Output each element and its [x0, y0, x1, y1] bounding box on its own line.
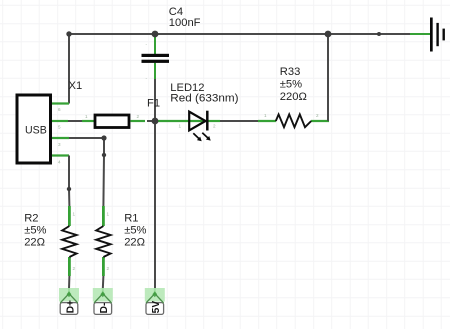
- svg-text:2: 2: [137, 114, 140, 119]
- junction node at C4/rail: [152, 31, 159, 38]
- ground symbol: [430, 18, 445, 52]
- svg-text:F1: F1: [147, 97, 160, 109]
- bendpoint pin3 drop: [102, 153, 106, 157]
- svg-text:D+: D+: [65, 300, 76, 313]
- wire LED cathode lead (green): [209, 120, 221, 122]
- wire R1 top lead (green): [102, 206, 105, 226]
- bendpoint on rail: [377, 32, 381, 36]
- svg-text:5: 5: [58, 125, 61, 130]
- terminal D- flag: [94, 291, 112, 314]
- wire LED anode lead (green): [155, 120, 206, 122]
- wire terminal D+ tip (green): [68, 288, 70, 294]
- svg-text:±5%: ±5%: [24, 225, 46, 237]
- junction node at F1/LED/5V: [152, 118, 159, 125]
- svg-text:2: 2: [73, 266, 76, 271]
- wire top rail: [69, 33, 410, 35]
- svg-text:R1: R1: [124, 212, 138, 224]
- svg-text:2: 2: [316, 113, 319, 118]
- wire riser USB pin1 to rail: [68, 34, 70, 104]
- bendpoint pin4 drop: [67, 187, 71, 191]
- svg-text:1: 1: [73, 212, 76, 217]
- svg-text:-: -: [146, 42, 148, 47]
- svg-text:100nF: 100nF: [169, 17, 201, 29]
- svg-text:C4: C4: [169, 6, 183, 18]
- terminal 5V flag: [146, 291, 164, 314]
- svg-text:R33: R33: [280, 66, 301, 78]
- wire USB pin3 lead (green): [52, 137, 69, 139]
- wire USB pin3 horizontal: [69, 137, 104, 139]
- svg-text:X1: X1: [69, 80, 83, 92]
- LED LED12 triangle: [189, 112, 205, 131]
- wire fuse F1 right lead (green): [131, 120, 146, 122]
- resistor R33 zigzag: [276, 114, 311, 127]
- svg-text:USB: USB: [25, 124, 47, 136]
- USB connector X1 body: [17, 95, 51, 163]
- svg-text:2: 2: [213, 124, 216, 129]
- wire USB pin4 lead (green): [52, 154, 69, 156]
- wire terminal 5V tip (green): [154, 288, 156, 294]
- svg-text:D-: D-: [99, 303, 110, 314]
- resistor R1 zigzag: [96, 226, 110, 257]
- wire R2 top lead (green): [68, 206, 71, 226]
- svg-text:±5%: ±5%: [124, 225, 146, 237]
- wire ground lead (green): [410, 33, 431, 35]
- terminal D+ flag: [60, 291, 78, 314]
- wire pin3 drop to R1: [102, 138, 105, 206]
- svg-text:4: 4: [58, 160, 61, 165]
- wire R1 bottom lead (green): [102, 257, 105, 276]
- LED LED12 cathode bar: [206, 111, 209, 131]
- terminal D- highlight: [93, 288, 113, 302]
- svg-text:22Ω: 22Ω: [24, 237, 45, 249]
- wire LED to R33: [220, 120, 258, 122]
- wire USB pin1 lead (green): [52, 102, 69, 104]
- svg-text:±5%: ±5%: [280, 79, 302, 91]
- svg-text:5V: 5V: [151, 301, 162, 314]
- wire R2 to terminal D+: [68, 276, 70, 289]
- wire USB pin2 to fuse: [68, 120, 82, 122]
- wire fuse to node: [147, 120, 155, 122]
- fuse F1 body: [95, 115, 129, 128]
- svg-text:-: -: [146, 76, 148, 81]
- wire USB pin2 lead (green): [52, 120, 68, 122]
- svg-text:Red (633nm): Red (633nm): [170, 92, 238, 104]
- LED emission arrow 2: [202, 133, 208, 139]
- resistor R2 zigzag: [62, 226, 76, 257]
- svg-text:22Ω: 22Ω: [124, 237, 145, 249]
- svg-text:R2: R2: [24, 212, 38, 224]
- wire fuse F1 left lead (green): [82, 120, 94, 122]
- junction node at R33 riser/rail: [325, 31, 332, 38]
- wire terminal D- tip (green): [102, 288, 104, 294]
- svg-text:1: 1: [107, 212, 110, 217]
- wire R33 riser to rail: [327, 34, 329, 121]
- svg-text:6: 6: [58, 107, 61, 112]
- wire pin4 drop to R2: [68, 156, 70, 207]
- wire R33 right lead (green): [311, 120, 329, 122]
- svg-text:1: 1: [179, 124, 182, 129]
- wire C4 branch lower (green pin lead): [154, 63, 156, 79]
- wire R33 left lead (green): [258, 120, 276, 122]
- wire node to terminal 5V: [154, 121, 156, 289]
- bendpoint pin3 corner: [101, 135, 106, 140]
- bendpoint at rail corner: [66, 31, 71, 36]
- svg-text:3: 3: [58, 142, 61, 147]
- svg-text:2: 2: [107, 266, 110, 271]
- svg-text:220Ω: 220Ω: [280, 91, 307, 103]
- terminal 5V highlight: [145, 288, 165, 302]
- svg-text:1: 1: [264, 113, 267, 118]
- wire R2 bottom lead (green): [68, 257, 71, 276]
- wire R1 to terminal D-: [102, 276, 105, 289]
- wire C4 branch upper (green pin lead): [154, 35, 156, 54]
- capacitor C4 plates: [142, 54, 170, 57]
- LED emission arrow 1: [193, 133, 210, 142]
- svg-text:1: 1: [85, 114, 88, 119]
- wire C4 to F1 node: [154, 79, 156, 121]
- terminal D+ highlight: [59, 288, 79, 302]
